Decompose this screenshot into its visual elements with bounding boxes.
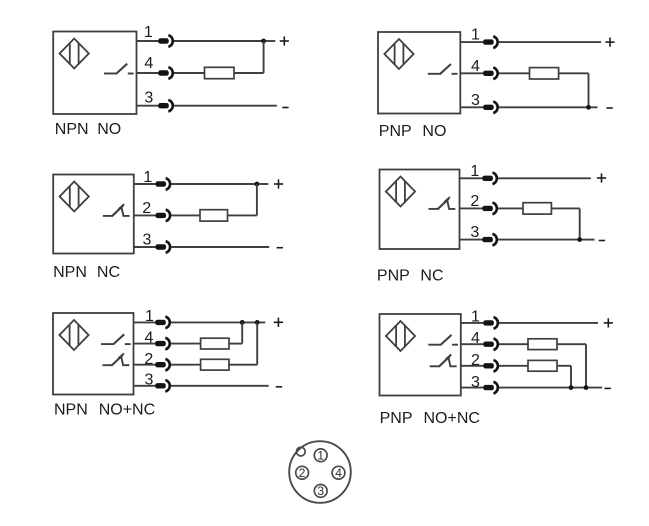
- svg-text:NC: NC: [97, 264, 120, 281]
- wire from NO load to junction B (PNP NO+NC): [557, 343, 586, 345]
- connector plug pin 2: [156, 213, 167, 218]
- svg-text:1: 1: [317, 449, 324, 463]
- load resistor NC (PNP NO+NC): [528, 360, 557, 371]
- junction node B (NPN NO+NC): [255, 320, 260, 325]
- svg-text:3: 3: [144, 90, 153, 107]
- connector plug pin 2: [155, 362, 166, 367]
- wire 3 end segment (PNP NO): [591, 106, 598, 108]
- sensor body NPN NO: [53, 32, 136, 115]
- connector outer circle: [289, 441, 351, 503]
- svg-text:1: 1: [470, 163, 479, 180]
- wire 4 to load (NPN NO+NC): [171, 343, 201, 345]
- terminal - (PNP NO): [606, 107, 612, 109]
- svg-text:NPN: NPN: [54, 402, 88, 419]
- load resistor (NPN NC): [200, 210, 228, 221]
- wire 2 to load (NPN NC): [171, 214, 200, 216]
- load resistor (PNP NO): [530, 68, 559, 79]
- connector keying notch: [296, 447, 305, 456]
- wire 3 to supply - (PNP NO): [499, 106, 589, 108]
- wire pin 1 stub: [134, 321, 156, 323]
- connector plug pin 2: [483, 363, 494, 368]
- wire 2 to load (NPN NO+NC): [171, 364, 201, 366]
- connector pin 2 circle: [296, 466, 309, 479]
- wire from load to junction (PNP NO): [559, 72, 589, 74]
- wire 1 to supply + (NPN NO+NC): [171, 321, 265, 323]
- NO switch contact NPN NO+NC: [101, 343, 114, 345]
- sensor body NPN NC: [53, 175, 134, 254]
- connector plug pin 3: [483, 105, 494, 110]
- terminal - (NPN NC): [277, 247, 283, 249]
- wire pin 4 stub: [134, 343, 156, 345]
- wire 4 to load (PNP NO+NC): [499, 343, 528, 345]
- svg-text:NO: NO: [97, 121, 121, 138]
- svg-text:NC: NC: [420, 268, 443, 285]
- wire pin 3 stub: [137, 105, 159, 107]
- connector plug pin 4: [483, 71, 494, 76]
- wire pin 1 stub: [460, 177, 483, 179]
- wire pin 3 stub: [461, 387, 484, 389]
- svg-text:3: 3: [317, 484, 324, 498]
- wire 1 to supply + (PNP NO+NC): [499, 322, 598, 324]
- wire 1 to supply + (PNP NC): [498, 177, 591, 179]
- junction node on wire 3 (PNP NO): [586, 105, 591, 110]
- connector plug pin 3: [158, 103, 169, 108]
- wire from NC load to junction A (PNP NO+NC): [557, 365, 571, 367]
- NO switch contact PNP NO: [428, 73, 441, 75]
- vertical wire load to - (PNP NO): [588, 73, 590, 107]
- svg-text:3: 3: [470, 224, 479, 241]
- NC switch contact PNP NO+NC: [430, 365, 440, 367]
- sensor body PNP NC: [380, 170, 460, 250]
- junction node on wire 1: [261, 39, 266, 44]
- connector plug pin 4: [155, 341, 166, 346]
- wire 1 to supply + (PNP NO): [499, 41, 601, 43]
- NO switch contact PNP NO+NC: [428, 344, 441, 346]
- connector plug pin 3: [483, 385, 494, 390]
- connector plug pin 4: [158, 70, 169, 75]
- wire 2 to load (PNP NO+NC): [499, 365, 528, 367]
- svg-text:1: 1: [143, 169, 152, 186]
- terminal + (PNP NO): [605, 41, 614, 43]
- junction node A (NPN NO+NC): [240, 320, 245, 325]
- vertical wire NO load to +: [241, 322, 243, 343]
- svg-text:2: 2: [299, 466, 306, 480]
- svg-text:PNP: PNP: [379, 123, 412, 140]
- sensor symbol diamond NPN NO+NC: [59, 320, 88, 350]
- connector plug pin 3: [156, 244, 167, 249]
- connector plug pin 3: [155, 383, 166, 388]
- vertical wire load to - (PNP NC): [579, 208, 581, 239]
- sensor symbol diamond PNP NO+NC: [386, 321, 415, 351]
- connector plug pin 2: [482, 206, 493, 211]
- connector plug pin 1: [482, 176, 493, 181]
- sensor symbol diamond PNP NO: [384, 39, 413, 69]
- wire 1 to supply +: [174, 40, 264, 42]
- svg-text:2: 2: [470, 193, 479, 210]
- sensor body NPN NO+NC: [53, 313, 134, 395]
- connector plug pin 1: [158, 38, 169, 43]
- connector plug pin 1: [156, 181, 167, 186]
- connector pin 3 circle: [314, 485, 327, 498]
- wire pin 4 stub: [460, 72, 483, 74]
- load resistor (PNP NC): [523, 203, 551, 214]
- wire from load to junction (PNP NC): [551, 207, 579, 209]
- NC switch contact PNP NC: [429, 208, 439, 210]
- wire 1 to supply + (NPN NC): [171, 183, 257, 185]
- wire pin 1 stub: [137, 40, 159, 42]
- terminal - (NPN NO+NC): [276, 386, 282, 388]
- svg-text:3: 3: [471, 92, 480, 109]
- wire pin 2 stub: [461, 365, 484, 367]
- svg-text:PNP: PNP: [380, 410, 413, 427]
- wire pin 4 stub: [461, 343, 484, 345]
- wire from load to junction (NPN NC): [228, 214, 257, 216]
- wire pin 3 stub: [134, 385, 156, 387]
- vertical wire NC load to +: [256, 322, 258, 364]
- terminal + (NPN NO+NC): [274, 321, 283, 323]
- terminal - (NPN NO): [282, 107, 288, 109]
- sensor symbol diamond NPN NO: [60, 39, 89, 69]
- svg-text:2: 2: [144, 351, 153, 368]
- wire 1 end segment: [266, 40, 275, 42]
- wire pin 1 stub: [461, 322, 484, 324]
- wire from NC load to junction B: [229, 364, 257, 366]
- svg-text:4: 4: [471, 58, 480, 75]
- wire pin 2 stub: [134, 364, 156, 366]
- svg-text:1: 1: [471, 309, 480, 326]
- terminal + (NPN NC): [274, 183, 283, 185]
- wire from NO load to junction A: [229, 343, 242, 345]
- svg-text:2: 2: [471, 352, 480, 369]
- svg-text:3: 3: [471, 374, 480, 391]
- wire pin 2 stub: [460, 207, 483, 209]
- sensor body PNP NO: [378, 32, 460, 114]
- vertical wire NO load to - (PNP NO+NC): [585, 344, 587, 387]
- load resistor (NPN NO): [205, 67, 235, 78]
- terminal - (PNP NO+NC): [605, 387, 611, 389]
- svg-text:2: 2: [142, 200, 151, 217]
- wire from load to junction: [234, 72, 264, 74]
- wire pin 3 stub: [460, 239, 483, 241]
- svg-text:3: 3: [145, 372, 154, 389]
- vertical wire load to + (NPN NC): [256, 184, 258, 215]
- connector plug pin 1: [483, 39, 494, 44]
- svg-text:1: 1: [144, 24, 153, 41]
- vertical wire NC load to - (PNP NO+NC): [570, 366, 572, 388]
- wire pin 3 stub: [460, 106, 483, 108]
- wire 3 to supply -: [174, 105, 277, 107]
- junction node A (PNP NO+NC): [569, 385, 574, 390]
- wire 2 to load (PNP NC): [498, 207, 523, 209]
- junction node (PNP NC): [577, 237, 582, 242]
- terminal + (PNP NC): [597, 177, 606, 179]
- junction node B (PNP NO+NC): [584, 385, 589, 390]
- svg-text:1: 1: [145, 308, 154, 325]
- wire 3 to supply - (NPN NO+NC): [171, 385, 269, 387]
- load resistor NC (NPN NO+NC): [201, 359, 229, 370]
- svg-text:NO: NO: [422, 123, 446, 140]
- sensor body PNP NO+NC: [380, 314, 461, 396]
- connector plug pin 4: [483, 342, 494, 347]
- NC switch contact NPN NC: [103, 215, 113, 217]
- vertical wire load to +: [263, 41, 265, 73]
- wire 3 to supply - (PNP NC): [498, 239, 580, 241]
- connector plug pin 1: [483, 320, 494, 325]
- terminal + (NPN NO): [280, 40, 289, 42]
- svg-text:PNP: PNP: [377, 268, 410, 285]
- NO switch contact NPN NO: [104, 73, 117, 75]
- wire 3 to supply - (PNP NO+NC): [499, 387, 602, 389]
- load resistor NO (NPN NO+NC): [201, 338, 229, 349]
- connector pin 1 circle: [314, 449, 327, 462]
- connector plug pin 1: [155, 320, 166, 325]
- connector plug pin 3: [482, 237, 493, 242]
- svg-text:NPN: NPN: [53, 264, 87, 281]
- svg-text:NO+NC: NO+NC: [424, 410, 480, 427]
- svg-text:3: 3: [143, 232, 152, 249]
- junction node (NPN NC): [255, 182, 260, 187]
- wire pin 4 stub: [137, 72, 159, 74]
- svg-text:4: 4: [145, 330, 154, 347]
- wire 1 end segment (NPN NC): [259, 183, 268, 185]
- sensor symbol diamond PNP NC: [386, 177, 415, 207]
- terminal - (PNP NC): [599, 240, 605, 242]
- svg-text:NO+NC: NO+NC: [99, 402, 155, 419]
- svg-text:4: 4: [335, 466, 342, 480]
- svg-text:4: 4: [144, 55, 153, 72]
- wire 4 to load (PNP NO): [499, 72, 530, 74]
- svg-text:1: 1: [471, 27, 480, 44]
- wire 3 end segment (PNP NC): [582, 239, 595, 241]
- wire pin 2 stub: [134, 214, 156, 216]
- terminal + (PNP NO+NC): [604, 322, 613, 324]
- load resistor NO (PNP NO+NC): [528, 339, 557, 350]
- wire pin 3 stub: [134, 246, 156, 248]
- connector pin 4 circle: [332, 466, 345, 479]
- wire pin 1 stub: [460, 41, 483, 43]
- wire pin 1 stub: [134, 183, 156, 185]
- sensor symbol diamond NPN NC: [60, 182, 89, 212]
- NC switch contact NPN NO+NC: [103, 364, 113, 366]
- svg-text:NPN: NPN: [55, 121, 89, 138]
- wire 3 to supply - (NPN NC): [171, 246, 269, 248]
- wire 4 to load: [174, 72, 205, 74]
- svg-text:4: 4: [471, 330, 480, 347]
